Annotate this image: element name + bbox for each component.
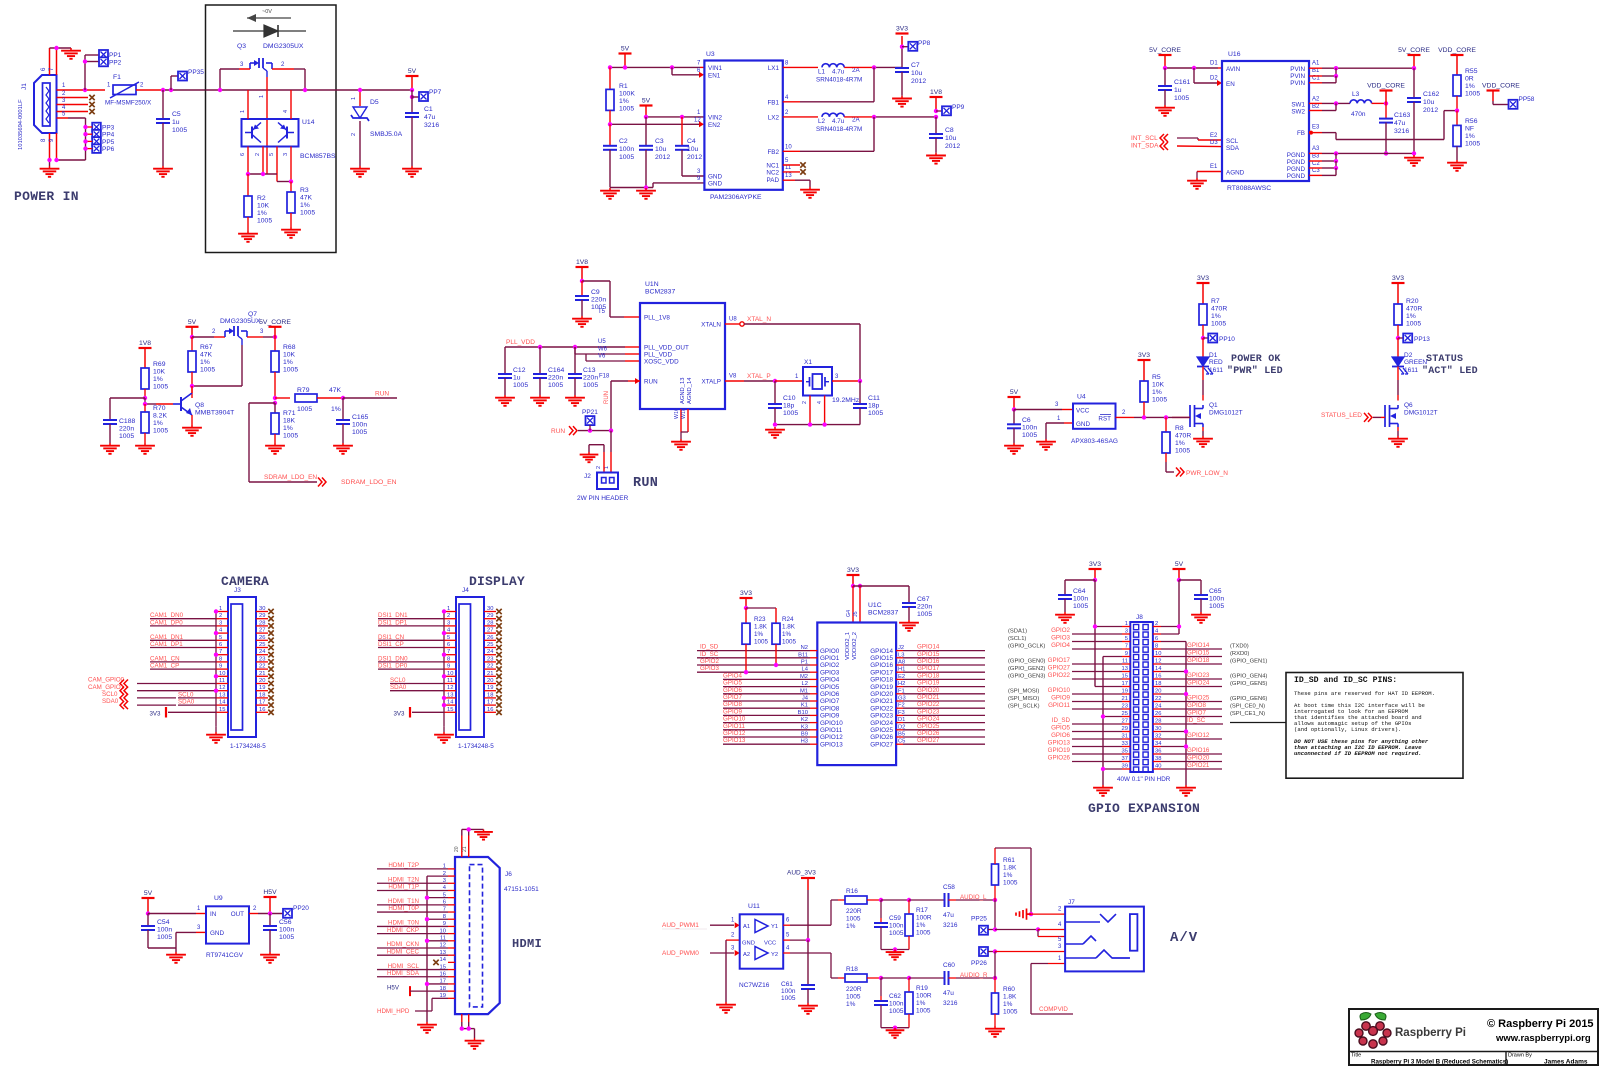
capacitor C13 220n xyxy=(568,347,598,395)
svg-text:1005: 1005 xyxy=(119,433,134,440)
ground under C59 xyxy=(886,950,905,960)
svg-text:SCL: SCL xyxy=(1226,138,1239,145)
net GPIO9 J8 left row11 xyxy=(1008,695,1122,703)
svg-text:Raspberry Pi 3 Model B (Reduce: Raspberry Pi 3 Model B (Reduced Schemati… xyxy=(1371,1059,1508,1066)
svg-text:3216: 3216 xyxy=(424,122,439,129)
svg-text:GPIO24: GPIO24 xyxy=(1187,680,1210,687)
net AUD_PWM0 xyxy=(662,946,740,958)
svg-text:U1N: U1N xyxy=(645,281,659,288)
J4 pin 16 no-connect xyxy=(484,707,502,715)
capacitor C56 100n xyxy=(263,914,294,953)
svg-text:1005: 1005 xyxy=(1003,880,1018,887)
svg-text:28: 28 xyxy=(487,620,493,626)
connector J3 CAMERA outer xyxy=(228,587,266,750)
junction RUN-J2 xyxy=(609,428,613,432)
svg-text:1%: 1% xyxy=(1152,389,1162,396)
ground under AGND pins xyxy=(671,439,691,450)
svg-text:GPIO5: GPIO5 xyxy=(820,684,840,691)
svg-text:COMPVID: COMPVID xyxy=(1039,1006,1068,1013)
U1C pin GPIO18 xyxy=(870,674,905,684)
wire PGND C3 xyxy=(1309,168,1336,175)
svg-text:C3: C3 xyxy=(1312,168,1320,174)
net GPIO26 right wire xyxy=(903,730,985,737)
svg-text:E2: E2 xyxy=(1210,133,1218,139)
svg-text:C2: C2 xyxy=(619,138,628,145)
wire OUT xyxy=(249,906,283,914)
wire R16 node xyxy=(881,899,909,901)
test point PP26 xyxy=(971,947,995,967)
junction PVIN B1 xyxy=(1334,74,1338,78)
net GPIO13 J8 left row17 xyxy=(1048,740,1122,747)
capacitor C161 1u xyxy=(1158,68,1190,105)
power flag 5V U4 xyxy=(1008,389,1021,410)
U3 NC1 no-connect xyxy=(783,162,806,167)
J8 pin numbers row 16 xyxy=(1122,734,1162,740)
power flag VDD_CORE mid xyxy=(1367,83,1405,104)
net GPIO19 right wire xyxy=(903,680,985,687)
svg-text:(SPI_SCLK): (SPI_SCLK) xyxy=(1008,704,1040,710)
wire U4 GND xyxy=(1046,416,1073,439)
svg-text:10u: 10u xyxy=(945,135,957,142)
svg-text:1005: 1005 xyxy=(1022,432,1037,439)
svg-text:100R: 100R xyxy=(916,915,932,922)
svg-text:26: 26 xyxy=(259,635,265,641)
svg-text:1: 1 xyxy=(219,606,222,612)
svg-text:"ACT" LED: "ACT" LED xyxy=(1422,365,1478,377)
svg-text:HDMI_T2P: HDMI_T2P xyxy=(388,862,419,869)
caption POWER IN xyxy=(14,189,79,204)
svg-text:GPIO1: GPIO1 xyxy=(820,655,840,662)
svg-text:1005: 1005 xyxy=(300,210,315,217)
svg-text:10u: 10u xyxy=(1423,99,1435,106)
svg-text:GPIO15: GPIO15 xyxy=(870,655,893,662)
svg-text:AGND_14: AGND_14 xyxy=(687,377,693,404)
svg-text:19.2MHz: 19.2MHz xyxy=(832,397,860,404)
junction R8 node xyxy=(1164,415,1168,419)
resistor R2 10K xyxy=(244,174,272,231)
svg-text:C9: C9 xyxy=(591,289,600,296)
junction J3 bus row12 xyxy=(214,689,218,693)
svg-text:3216: 3216 xyxy=(943,1000,958,1007)
svg-text:4.7u: 4.7u xyxy=(832,118,845,125)
IC U1N BCM2837 PLL xyxy=(598,281,737,409)
svg-text:SW1: SW1 xyxy=(1291,102,1305,109)
junction VDDIO2_1 xyxy=(851,584,855,588)
svg-text:GPIO25: GPIO25 xyxy=(917,723,940,730)
junction J6 shield row8 xyxy=(425,917,429,921)
capacitor C188 220n xyxy=(103,398,135,443)
junction PP8 tap xyxy=(900,45,904,49)
net ID_SD wire xyxy=(697,644,810,651)
wire base node row1 xyxy=(248,173,277,175)
svg-text:3: 3 xyxy=(219,620,222,626)
J4 pin 20 no-connect xyxy=(484,678,502,686)
wire FB network xyxy=(1309,111,1457,140)
junction base row2 xyxy=(289,179,293,183)
svg-text:30: 30 xyxy=(487,606,493,612)
J6 pin 9 stub xyxy=(443,921,455,927)
wire X1 pin1 xyxy=(775,374,803,381)
J4 pin 11 xyxy=(444,678,456,684)
wire XOSC_VDD pin V6 xyxy=(540,347,640,361)
junction audio gnd L xyxy=(893,947,897,951)
svg-text:GPIO20: GPIO20 xyxy=(917,687,940,694)
svg-text:5V: 5V xyxy=(408,68,417,75)
J8 pin numbers row 1 xyxy=(1125,621,1158,627)
svg-text:A2: A2 xyxy=(743,952,750,958)
net GPIO12 J8 right row16 xyxy=(1161,732,1222,739)
svg-text:2: 2 xyxy=(255,153,261,156)
J8 pin numbers row 11 xyxy=(1122,696,1162,702)
svg-text:HDMI_CEC: HDMI_CEC xyxy=(387,948,420,955)
svg-text:GPIO20: GPIO20 xyxy=(870,691,893,698)
ground under R71 xyxy=(265,443,285,454)
ground under C188 xyxy=(100,443,120,454)
J3 pin 9 xyxy=(216,664,228,670)
net GPIO3 wire xyxy=(697,665,810,672)
J3 pin 16 no-connect xyxy=(256,707,274,715)
svg-text:D1: D1 xyxy=(1209,352,1218,359)
connector J7 AV jack xyxy=(1065,899,1144,971)
svg-text:1005: 1005 xyxy=(754,639,769,646)
svg-text:R69: R69 xyxy=(153,361,166,368)
svg-text:1005: 1005 xyxy=(548,382,563,389)
svg-text:D1: D1 xyxy=(1210,61,1218,67)
ground under PAD xyxy=(800,187,820,198)
J8 left stub row 16 xyxy=(1122,738,1130,740)
junction VDDIO2_2 xyxy=(858,584,862,588)
svg-text:GPIO9: GPIO9 xyxy=(820,713,840,720)
svg-text:GND: GND xyxy=(742,941,755,947)
junction L3-C163 xyxy=(1384,101,1388,105)
svg-text:1005: 1005 xyxy=(153,384,168,391)
svg-text:18K: 18K xyxy=(283,418,296,425)
ground under C5 xyxy=(153,166,173,177)
junction PP7 tap xyxy=(410,95,414,99)
svg-text:PP13: PP13 xyxy=(1414,336,1430,343)
J8 pin numbers row 17 xyxy=(1122,741,1163,747)
transistor Q1 DMG1012T xyxy=(1190,402,1243,427)
junction gate-R67 xyxy=(190,384,194,388)
svg-text:470n: 470n xyxy=(1351,111,1366,118)
U1C pin GPIO17 xyxy=(870,667,905,677)
net GPIO11 J8 left row12 xyxy=(1008,702,1122,710)
wire to PP1 PP2 xyxy=(85,55,99,90)
svg-text:~0V: ~0V xyxy=(262,9,272,15)
svg-text:J8: J8 xyxy=(1136,614,1143,621)
junction PP10 tap xyxy=(1201,336,1205,340)
capacitor C61 100n xyxy=(781,940,815,1003)
transistor Q6 DMG1012T xyxy=(1385,402,1438,427)
svg-text:PP9: PP9 xyxy=(952,104,965,111)
svg-text:GPIO6: GPIO6 xyxy=(723,687,742,694)
svg-text:EN1: EN1 xyxy=(708,73,721,80)
junction PP5 tap xyxy=(83,139,87,143)
svg-text:GPIO16: GPIO16 xyxy=(917,658,940,665)
J4 pin 9 xyxy=(444,664,456,670)
svg-text:B2: B2 xyxy=(1312,104,1320,110)
svg-text:XTAL_N: XTAL_N xyxy=(747,316,771,323)
svg-text:GPIO22: GPIO22 xyxy=(917,701,940,708)
wire R61 bottom xyxy=(994,885,996,900)
svg-text:1%: 1% xyxy=(754,631,764,638)
J6 pin 6 stub xyxy=(443,900,455,906)
J8 left stub row 15 xyxy=(1122,731,1130,733)
svg-text:GPIO20: GPIO20 xyxy=(1187,755,1210,762)
J6 pin 13 stub xyxy=(440,950,455,956)
svg-text:XOSC_VDD: XOSC_VDD xyxy=(644,359,679,366)
svg-text:XTALP: XTALP xyxy=(702,379,721,386)
caption HDMI xyxy=(512,937,542,951)
svg-text:19: 19 xyxy=(259,685,265,691)
ground under C64 xyxy=(1055,612,1075,623)
J8 left stub row 9 xyxy=(1122,686,1130,688)
svg-text:3216: 3216 xyxy=(943,922,958,929)
caption A/V xyxy=(1170,930,1198,946)
junction xtal gnd b xyxy=(808,422,812,426)
svg-text:9: 9 xyxy=(447,664,450,670)
J8 pin numbers row 20 xyxy=(1122,764,1162,770)
wire J2 pin2 ground xyxy=(589,445,604,472)
svg-text:5V: 5V xyxy=(1175,561,1184,568)
junction xtal gnd a xyxy=(773,422,777,426)
svg-text:XTAL_P: XTAL_P xyxy=(747,373,771,380)
U1C pin GPIO9 xyxy=(798,710,840,720)
svg-text:2012: 2012 xyxy=(911,78,926,85)
J8 pin numbers row 13 xyxy=(1122,711,1162,717)
caption STATUS ACT LED xyxy=(1422,354,1478,377)
svg-text:PP35: PP35 xyxy=(188,69,204,76)
svg-text:10: 10 xyxy=(785,145,792,151)
net HDMI_T0P xyxy=(377,905,448,912)
junction base xyxy=(143,402,147,406)
wire VIN2 xyxy=(646,116,704,118)
svg-text:RUN: RUN xyxy=(604,391,610,404)
capacitor C67 220n xyxy=(902,596,932,620)
J8 right stub row 12 xyxy=(1153,708,1161,710)
test point PP35 xyxy=(178,69,204,81)
svg-text:1005: 1005 xyxy=(513,382,528,389)
J8 right stub row 13 xyxy=(1153,716,1161,718)
svg-text:C6: C6 xyxy=(1022,417,1031,424)
U3 NC2 no-connect xyxy=(783,169,806,174)
svg-text:W18: W18 xyxy=(681,408,687,419)
wire XTALP xyxy=(725,373,775,381)
svg-text:R8: R8 xyxy=(1175,425,1184,432)
svg-text:GPIO12: GPIO12 xyxy=(1187,732,1210,739)
svg-text:C56: C56 xyxy=(279,919,292,926)
net DSI1_DP1 to J4 xyxy=(378,619,444,626)
svg-text:(GPIO_GCLK): (GPIO_GCLK) xyxy=(1008,644,1045,650)
svg-text:GPIO23: GPIO23 xyxy=(917,708,940,715)
inductor L1 4.7u SRN4018-4R7M xyxy=(816,64,862,84)
power flag 3V3 R7 xyxy=(1197,275,1210,304)
svg-text:GPIO17: GPIO17 xyxy=(870,669,893,676)
U1C pin GPIO7 xyxy=(802,696,840,706)
junction J3 bus row10 xyxy=(214,674,218,678)
svg-text:GPIO17: GPIO17 xyxy=(917,665,940,672)
capacitor C58 47u xyxy=(909,884,995,929)
wire PGND A3 xyxy=(1309,152,1414,154)
svg-text:PWR_LOW_N: PWR_LOW_N xyxy=(1186,470,1228,477)
J1 pin 4 no-connect xyxy=(57,105,95,114)
svg-text:18: 18 xyxy=(487,692,493,698)
J3 pin 14 xyxy=(216,700,228,706)
J3 pin 20 no-connect xyxy=(256,678,274,686)
J8 right stub row 7 xyxy=(1153,671,1161,673)
inductor L2 4.7u SRN4018-4R7M xyxy=(816,113,862,133)
J1 pin1 VBUS wire xyxy=(57,83,106,90)
svg-text:VIN2: VIN2 xyxy=(708,115,722,122)
wire EN2 from R1 xyxy=(610,121,704,127)
svg-text:SCL0: SCL0 xyxy=(102,691,118,698)
junction R24-GPIO2 xyxy=(774,663,778,667)
junction XTALP-C10 xyxy=(773,379,777,383)
svg-text:100n: 100n xyxy=(1022,425,1037,432)
junction 5V-C6 xyxy=(1012,407,1016,411)
svg-text:1u: 1u xyxy=(513,375,521,382)
J3 pin 21 no-connect xyxy=(256,671,274,679)
svg-text:C59: C59 xyxy=(889,915,901,922)
IC U14 BCM857BS dual PNP xyxy=(242,119,336,160)
svg-text:PGND: PGND xyxy=(1287,166,1306,173)
svg-text:GPIO17: GPIO17 xyxy=(1048,657,1071,664)
J4 pin 5 xyxy=(444,635,456,641)
svg-text:PAM2306AYPKE: PAM2306AYPKE xyxy=(710,194,762,201)
svg-text:GPIO23: GPIO23 xyxy=(1187,672,1210,679)
junction PVIN bus xyxy=(1334,66,1338,70)
svg-text:www.raspberrypi.org: www.raspberrypi.org xyxy=(1495,1033,1591,1044)
svg-text:GPIO27: GPIO27 xyxy=(917,737,940,744)
svg-text:100n: 100n xyxy=(781,988,796,995)
svg-text:(GPIO_GEN2): (GPIO_GEN2) xyxy=(1008,666,1045,672)
J8 left stub row 3 xyxy=(1122,641,1130,643)
svg-text:220R: 220R xyxy=(846,908,862,915)
svg-text:GPIO15: GPIO15 xyxy=(917,651,940,658)
net DSI1_CP to J4 xyxy=(378,641,444,648)
IC U9 RT9741CGV xyxy=(206,895,249,959)
power flag 5V main xyxy=(406,68,419,90)
svg-text:C61: C61 xyxy=(781,981,793,988)
wire J6 shield bus xyxy=(427,876,448,1022)
svg-text:DMG2305UX: DMG2305UX xyxy=(263,43,304,50)
U1C pin GPIO21 xyxy=(870,696,905,706)
J6 pin 16 stub xyxy=(440,971,455,977)
junction AUDIO_L xyxy=(993,898,997,902)
svg-text:PGND: PGND xyxy=(1287,173,1306,180)
svg-text:GPIO14: GPIO14 xyxy=(1187,642,1210,649)
J1 pin 3 no-connect xyxy=(57,98,95,107)
power flag 3V3 R5 xyxy=(1138,352,1151,381)
ground under C1 xyxy=(402,166,422,177)
J8 pin numbers row 19 xyxy=(1122,756,1162,762)
junction J4 bus row7 xyxy=(442,653,446,657)
svg-text:R68: R68 xyxy=(283,344,296,351)
svg-text:8: 8 xyxy=(219,656,222,662)
J8 left stub row 10 xyxy=(1122,693,1130,695)
svg-text:1005: 1005 xyxy=(257,218,272,225)
J3 pin 8 xyxy=(216,656,228,662)
svg-text:MMBT3904T: MMBT3904T xyxy=(195,410,234,417)
J8 pin numbers row 5 xyxy=(1125,651,1162,657)
svg-text:GPIO26: GPIO26 xyxy=(870,734,893,741)
svg-text:POWER IN: POWER IN xyxy=(14,189,79,204)
ground under C61 xyxy=(798,1003,818,1014)
net HDMI_T0N xyxy=(377,920,448,927)
ground under C161 xyxy=(1155,105,1175,116)
svg-text:AVIN: AVIN xyxy=(1226,66,1241,73)
svg-text:5: 5 xyxy=(447,635,450,641)
svg-text:VIN1: VIN1 xyxy=(708,65,722,72)
svg-text:GPIO19: GPIO19 xyxy=(917,680,940,687)
svg-text:RST: RST xyxy=(1098,416,1111,423)
junction J6 bottom shell b xyxy=(467,1026,471,1030)
svg-text:27: 27 xyxy=(259,628,265,634)
svg-text:VDDIO2_1: VDDIO2_1 xyxy=(845,632,851,660)
svg-text:100n: 100n xyxy=(279,927,294,934)
J8 right stub row 10 xyxy=(1153,693,1161,695)
svg-text:HDMI_T0N: HDMI_T0N xyxy=(388,920,419,927)
ground under D5 xyxy=(350,166,370,177)
J1 shield pins 8,9 xyxy=(41,133,86,166)
svg-text:3: 3 xyxy=(283,153,289,156)
junction SW bus xyxy=(1334,101,1338,105)
power flag 5V for U3 xyxy=(619,46,632,68)
svg-text:MF-MSMF250/X: MF-MSMF250/X xyxy=(105,100,152,107)
J8 right stub row 4 xyxy=(1153,648,1161,650)
svg-text:GPIO26: GPIO26 xyxy=(1048,755,1071,762)
svg-text:10: 10 xyxy=(447,671,453,677)
wire R18 node xyxy=(881,977,909,979)
junction R1-C2-EN2 xyxy=(608,122,612,126)
ground under C7 xyxy=(892,96,912,107)
wire main rail through box xyxy=(206,89,337,91)
svg-text:1005: 1005 xyxy=(1152,397,1167,404)
svg-text:2012: 2012 xyxy=(655,154,670,161)
svg-text:1005: 1005 xyxy=(153,428,168,435)
wire Y1 out xyxy=(783,900,845,925)
svg-text:(GPIO_GEN0): (GPIO_GEN0) xyxy=(1008,659,1045,665)
power flag 3V3 J4 xyxy=(393,707,444,718)
caption POWER OK PWR LED xyxy=(1227,354,1283,377)
svg-text:C11: C11 xyxy=(868,395,880,402)
resistor R24 1.8K xyxy=(772,616,797,665)
J8 right stub row 6 xyxy=(1153,663,1161,665)
wire Q7 source xyxy=(192,329,225,337)
svg-text:1005: 1005 xyxy=(916,1008,931,1015)
wire J3 bus to gnd xyxy=(215,727,217,732)
net GPIO8 J8 right row12 xyxy=(1161,702,1265,710)
junction J1 bottom a xyxy=(47,158,51,162)
svg-text:4.7u: 4.7u xyxy=(832,69,845,76)
net GPIO3 J8 left row3 xyxy=(1008,635,1122,643)
junction PP35 tap xyxy=(169,88,173,92)
wire PGND B3 xyxy=(1309,153,1336,161)
test point PP20 xyxy=(283,905,309,918)
svg-text:(GPIO_GEN5): (GPIO_GEN5) xyxy=(1230,681,1267,687)
wire to PP13 xyxy=(1398,337,1403,339)
svg-text:1005: 1005 xyxy=(889,1008,904,1015)
svg-text:E1: E1 xyxy=(1210,164,1218,170)
svg-text:VDD_CORE: VDD_CORE xyxy=(1438,47,1476,54)
connector J2 2W PIN HEADER xyxy=(577,473,629,503)
junction PP6 tap xyxy=(83,146,87,150)
J4 pin 29 no-connect xyxy=(484,613,502,621)
svg-text:1005: 1005 xyxy=(889,930,904,937)
svg-text:1%: 1% xyxy=(300,202,310,209)
net GPIO25 right wire xyxy=(903,723,985,730)
wire 3V3 vertical J8 xyxy=(1095,580,1122,687)
